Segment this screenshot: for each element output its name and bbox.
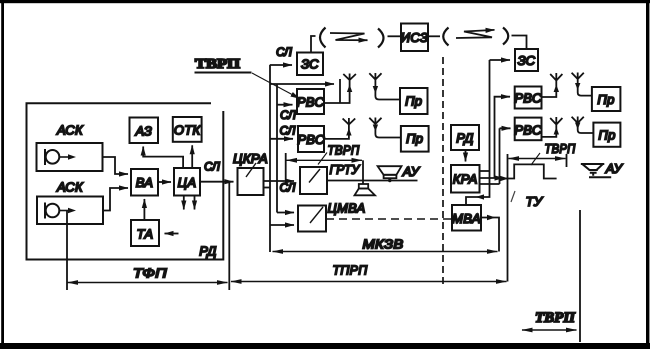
dashed wire ЦМВА to МВА xyxy=(326,218,452,220)
faint label ГРТУ right xyxy=(511,191,515,202)
wire to ИСЗ xyxy=(388,35,401,37)
leader arrow ТВРП to РВС1 xyxy=(252,73,300,99)
block ЗС right xyxy=(515,49,538,71)
riser to РВС1 right xyxy=(495,97,511,178)
riser r1 down into МВА xyxy=(466,60,490,205)
svg-text:Пр: Пр xyxy=(597,92,614,107)
antenna RX1 xyxy=(369,73,400,100)
svg-text:ТПРП: ТПРП xyxy=(333,263,368,278)
svg-text:ЦКРА: ЦКРА xyxy=(233,151,268,166)
svg-text:ТВРП: ТВРП xyxy=(195,57,240,72)
phone icon in АСК2 xyxy=(45,203,76,219)
block ВА xyxy=(131,169,158,196)
extension line from АСК2 xyxy=(66,211,68,290)
subscriber box АСК2 xyxy=(37,197,103,225)
extension tick shared ТФП-ТПРП xyxy=(228,182,230,290)
antenna TX1 right xyxy=(542,73,563,97)
subscriber box АСК1 xyxy=(37,143,103,171)
riser r3 xyxy=(499,128,501,184)
svg-text:РВС: РВС xyxy=(514,91,542,106)
block ГРТУ xyxy=(300,167,327,194)
svg-text:КРА: КРА xyxy=(453,172,478,187)
block РВС 1 xyxy=(297,89,324,114)
zigzag wave arrow 1 xyxy=(330,33,368,40)
svg-text:ЦА: ЦА xyxy=(178,175,197,190)
svg-text:АСК: АСК xyxy=(56,123,84,138)
svg-text:ТУ: ТУ xyxy=(526,194,544,209)
svg-text:ИСЗ: ИСЗ xyxy=(401,30,428,45)
wire to РВС1, label СЛ xyxy=(277,104,293,106)
block АЗ xyxy=(130,118,159,144)
downlink to ЗС right xyxy=(512,36,527,49)
long arrow to antenna TX1 xyxy=(270,83,334,85)
satellite block ИСЗ xyxy=(401,24,428,52)
receiver Пр right 2 xyxy=(593,123,620,147)
long vertical line right xyxy=(579,210,581,342)
wire v1 to ЦМВА xyxy=(270,224,294,226)
svg-text:ЦМВА: ЦМВА xyxy=(328,201,366,216)
dish left ( xyxy=(320,28,326,48)
svg-text:СЛ: СЛ xyxy=(280,183,296,195)
wire from ИСЗ xyxy=(428,35,440,37)
svg-text:АУ: АУ xyxy=(605,161,624,176)
wire КРА to ЗС right xyxy=(480,170,490,172)
stub arrow into ТА xyxy=(165,233,179,235)
down arrow 2 from ЦА xyxy=(194,196,196,210)
wire АСК2 to ВА xyxy=(103,188,128,211)
antenna TX2 xyxy=(324,118,355,139)
block КРА xyxy=(451,165,480,193)
antenna RX2 right xyxy=(572,117,594,134)
wire to РВС2, label СЛ xyxy=(270,138,293,140)
block ТА xyxy=(131,220,159,246)
svg-text:Пр: Пр xyxy=(406,131,423,146)
svg-text:СЛ: СЛ xyxy=(276,47,292,59)
uplink from ЗС to dish xyxy=(311,36,316,53)
down arrow 1 from ЦА xyxy=(183,196,185,210)
block ОТК xyxy=(173,117,202,142)
wire ГРТУ to АУ xyxy=(327,180,418,182)
block ЦКРА xyxy=(238,168,264,195)
svg-text:РД: РД xyxy=(199,244,216,259)
РД enclosure box (left district) xyxy=(27,103,224,259)
svg-text:ВА: ВА xyxy=(136,175,154,190)
horn speaker АУ right xyxy=(581,164,611,177)
block ЦМВА xyxy=(298,206,326,232)
dish ( right xyxy=(443,28,448,46)
wire РД to КРА xyxy=(465,150,467,162)
wire ЦА to АЗ xyxy=(143,147,183,169)
loudspeaker АУ left xyxy=(378,166,402,182)
block РВС 2 xyxy=(298,126,324,152)
dimension arrow ТВРП bottom xyxy=(522,329,577,331)
svg-text:МВА: МВА xyxy=(452,211,481,226)
svg-text:ТВРП: ТВРП xyxy=(535,310,576,326)
svg-text:РВС: РВС xyxy=(514,123,542,138)
svg-text:ТФП: ТФП xyxy=(133,266,167,281)
svg-text:СЛ: СЛ xyxy=(204,162,220,174)
svg-text:РД: РД xyxy=(456,131,473,146)
svg-text:ТА: ТА xyxy=(137,227,154,242)
svg-text:МКЗВ: МКЗВ xyxy=(363,237,404,252)
wire КРА to pulse line xyxy=(480,177,504,179)
antenna RX1 right xyxy=(572,73,592,96)
block МВА xyxy=(452,205,481,231)
wire ЦА to ОТК xyxy=(191,145,193,168)
svg-text:ОТК: ОТК xyxy=(174,123,202,138)
bus v2 xyxy=(276,84,278,213)
wire to ЗС, label СЛ xyxy=(270,64,292,66)
block РВС right 2 xyxy=(515,118,542,141)
svg-text:СЛ: СЛ xyxy=(280,110,296,122)
svg-text:РВС: РВС xyxy=(297,132,325,147)
svg-text:СЛ: СЛ xyxy=(280,126,296,138)
vertical B with pulse line xyxy=(507,154,509,282)
dashed boundary vertical xyxy=(442,57,444,284)
wire ЦКРА out stub to v1 xyxy=(264,187,271,189)
svg-text:ЗС: ЗС xyxy=(301,57,319,72)
dish ) xyxy=(378,29,384,48)
block РВС right 1 xyxy=(515,87,542,109)
wire ТА to ВА xyxy=(143,199,145,220)
block ЗС left xyxy=(297,53,323,76)
antenna TX1 xyxy=(324,74,356,104)
wire АСК1 to ВА xyxy=(103,157,129,174)
zigzag wave arrow 2 xyxy=(456,30,495,38)
leader slash ЦКРА xyxy=(246,163,256,177)
wire ВА to ЦА xyxy=(158,181,171,183)
svg-text:ГРТУ: ГРТУ xyxy=(330,162,361,177)
receiver Пр 1 xyxy=(400,88,428,114)
dish ) right xyxy=(503,28,508,45)
bus v1 xyxy=(269,65,271,252)
block ЦА xyxy=(174,168,200,196)
receiver Пр right 1 xyxy=(592,87,621,111)
phone icon in АСК1 xyxy=(45,149,76,165)
antenna TX2 right xyxy=(542,117,563,137)
svg-text:Пр: Пр xyxy=(598,128,615,143)
receiver Пр 2 xyxy=(401,126,429,152)
svg-text:АЗ: АЗ xyxy=(134,124,152,139)
wire v2 to ЦМВА xyxy=(277,212,294,214)
svg-text:ТВРП: ТВРП xyxy=(328,143,360,158)
svg-text:АСК: АСК xyxy=(56,180,84,195)
block РД right xyxy=(451,125,479,150)
wire МВА out to vertical A xyxy=(481,218,499,252)
wire ЦА to ЦКРА, node СЛ xyxy=(200,181,234,183)
svg-text:АУ: АУ xyxy=(402,164,421,179)
svg-text:Пр: Пр xyxy=(405,94,422,109)
svg-text:ЗС: ЗС xyxy=(518,53,536,68)
svg-text:ТВРП: ТВРП xyxy=(545,141,576,156)
antenna RX2 xyxy=(369,118,401,138)
wire КРА to РВС2 right xyxy=(480,128,511,184)
svg-text:РВС: РВС xyxy=(297,95,325,110)
horn speaker mid xyxy=(355,184,376,195)
wire ЦКРА out to ГРТУ, label СЛ xyxy=(264,180,295,182)
pulse waveform ГРТУ right xyxy=(504,164,557,178)
